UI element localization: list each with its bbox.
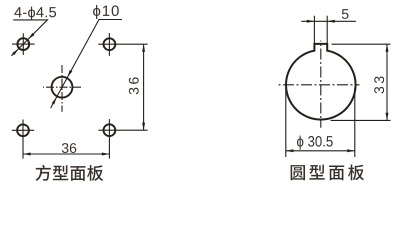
mounting hole TL (17, 38, 29, 50)
text 33 rotated (374, 77, 384, 94)
centerline TL horizontal (12, 43, 35, 45)
arrow left end bottom 36 dim (23, 153, 31, 156)
dimension line phi30.5 (286, 150, 355, 152)
dimension line 36 right vertical (143, 44, 145, 130)
label square-panel char ban (87, 165, 103, 181)
centerline BR horizontal, extension line to vertical 36 dim (98, 129, 147, 131)
centerline BL horizontal (12, 129, 34, 131)
extension line bottom of 33 dim (331, 119, 391, 121)
label round-panel char mian (329, 166, 344, 181)
centerline TR vertical (108, 33, 110, 56)
round panel horizontal centerline (277, 84, 360, 86)
round panel cutout circle with key notch (286, 44, 356, 120)
arrow top end 33 dim (386, 44, 389, 52)
dimension line 33 (386, 44, 388, 120)
text phi10 (93, 5, 100, 19)
text phi30.5 (297, 136, 333, 150)
extension lines for 5 dim (314, 16, 327, 43)
phi10 arrow at center hole lower-left edge (52, 97, 57, 104)
leader line 4-phi4.5 (shelf + 45deg leader through TL hole) (11, 20, 47, 56)
text 36 bottom (62, 143, 69, 153)
mounting hole BL (17, 124, 29, 136)
dimension line 36 bottom (23, 153, 109, 155)
mounting hole BR (104, 124, 116, 136)
arrow left end phi30.5 dim (286, 149, 294, 152)
extension line top of 33 dim (332, 43, 391, 45)
text 36 right rotated (129, 77, 139, 94)
center hole vertical centerline (61, 63, 63, 112)
centerline TL vertical (22, 33, 24, 55)
arrow right end phi30.5 dim (347, 149, 355, 152)
label square-panel char fang (35, 165, 50, 181)
text 5 (342, 9, 349, 19)
label square-panel char xing (53, 165, 68, 180)
arrow bottom end 33 dim (386, 113, 389, 121)
label round-panel char yuan (291, 165, 305, 180)
centerline BR vertical, extension line to bottom 36 dim (108, 119, 110, 158)
extension lines for phi30.5 dim (286, 88, 355, 157)
leader line phi10 (shelf + leader through center hole) (51, 20, 122, 109)
center hole horizontal centerline (43, 86, 82, 88)
centerline BL vertical, extension line to bottom 36 dim (22, 120, 24, 159)
center hole phi10 (52, 77, 73, 98)
phi10 arrow at center hole upper-right edge (67, 70, 72, 77)
centerline TR horizontal, extension line to vertical 36 dim (98, 43, 147, 45)
label square-panel char mian (70, 166, 85, 181)
label round-panel char xing (309, 165, 324, 180)
text 4-phi4.5 (14, 7, 21, 17)
arrow outside-right of 5 dim (327, 20, 335, 23)
mounting hole TR (104, 38, 116, 50)
arrow bottom end right 36 dim (142, 123, 145, 131)
dimension line 5 (301, 20, 356, 22)
label round-panel char ban (348, 164, 364, 180)
arrow right end bottom 36 dim (102, 153, 110, 156)
arrow outside-left of 5 dim (307, 20, 315, 23)
leader arrow at TL hole upper-right edge (28, 33, 34, 39)
arrow top end right 36 dim (142, 44, 145, 52)
leader arrow at TL hole lower-left edge (12, 49, 18, 55)
round panel vertical centerline (320, 41, 322, 128)
